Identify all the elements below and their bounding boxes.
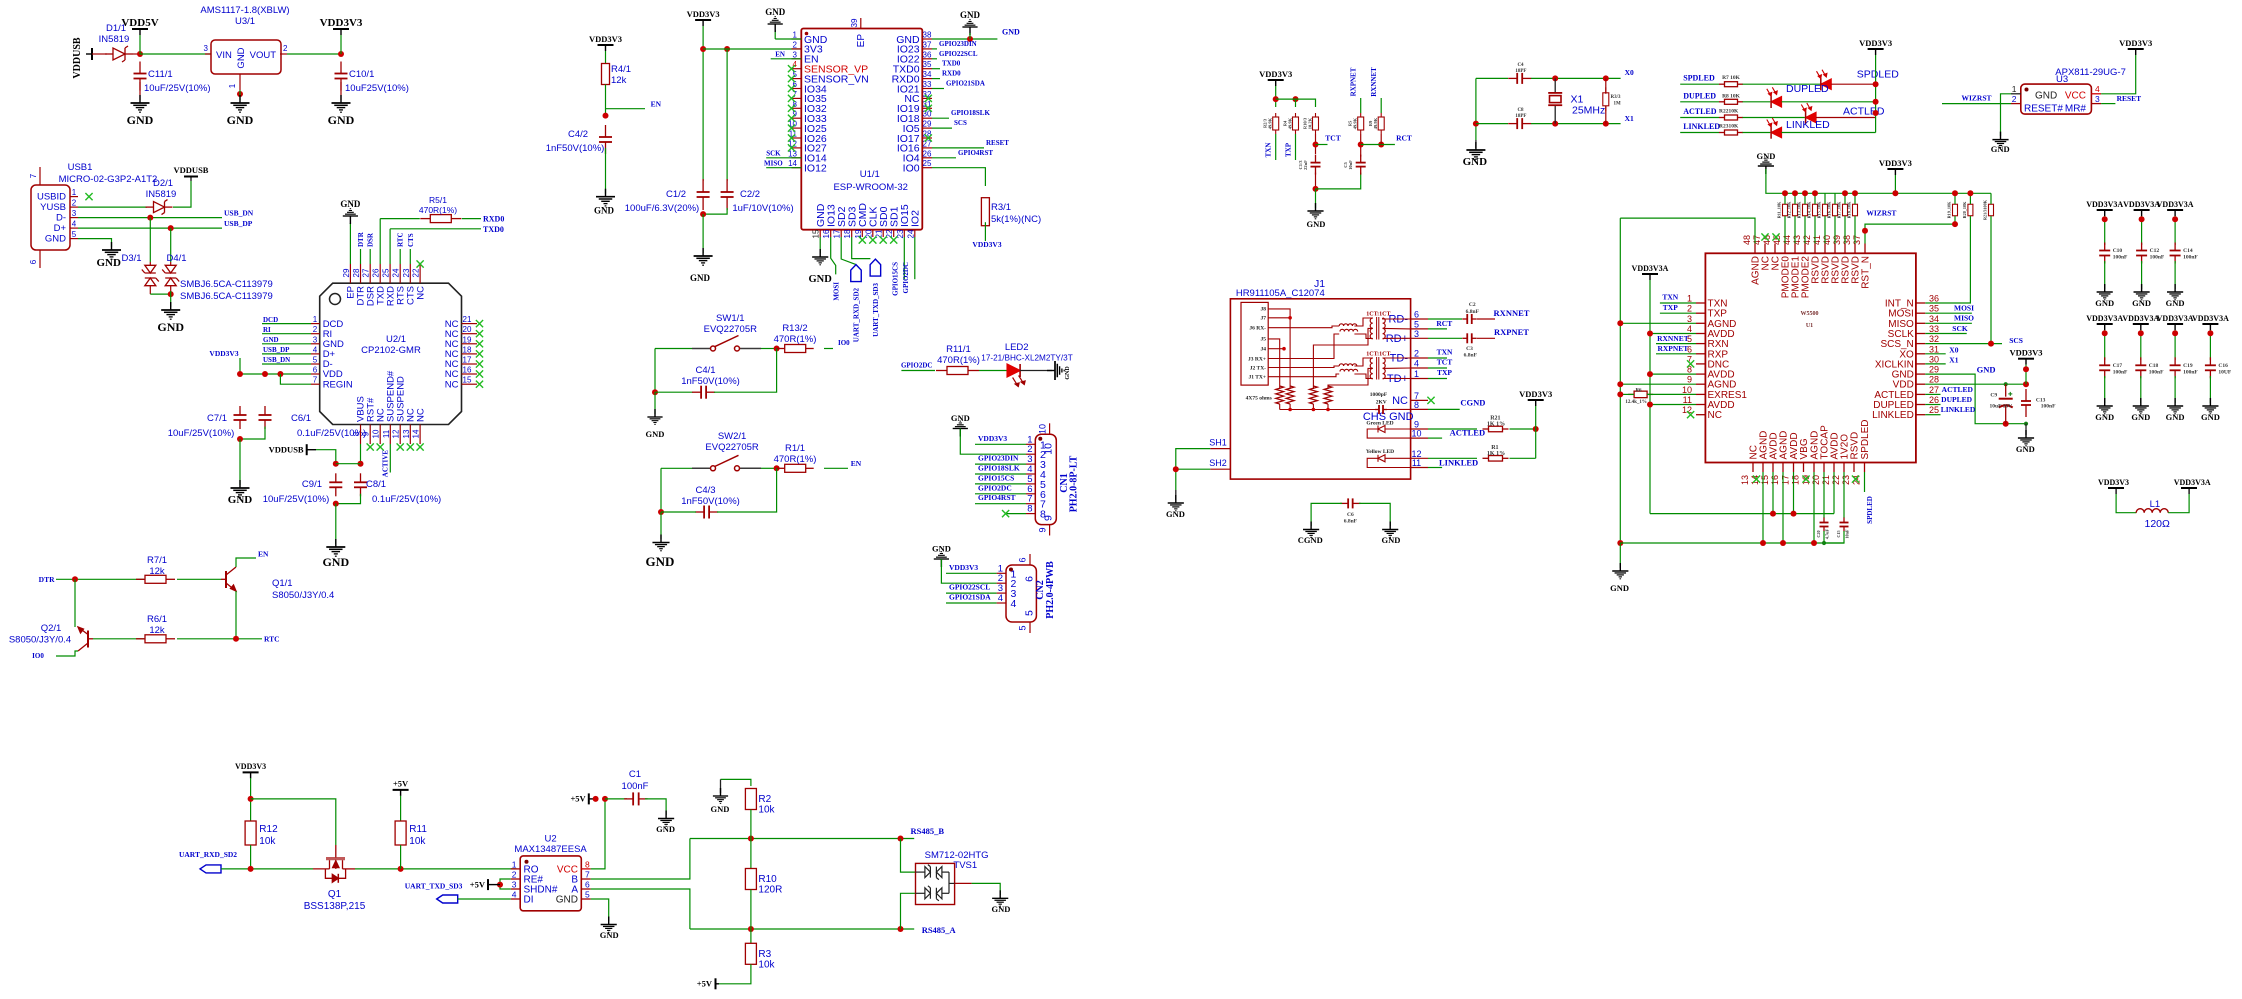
pin 8 AVDD of U1 W5500: [1696, 373, 1705, 375]
svg-text:6: 6: [1018, 557, 1028, 562]
svg-text:15: 15: [463, 376, 472, 385]
svg-text:4: 4: [1414, 359, 1419, 369]
ground below U3: [231, 95, 250, 112]
wire RD+ to C3: [1428, 337, 1462, 339]
svg-text:17: 17: [1781, 475, 1791, 485]
wire yellow LED loop: [1367, 458, 1410, 467]
wire R11 to RO row: [400, 845, 402, 869]
wire R7 to Q1 base: [177, 578, 221, 580]
wire B row to R10: [750, 839, 752, 869]
svg-text:100nF: 100nF: [2149, 370, 2164, 376]
svg-text:X1: X1: [1625, 114, 1634, 123]
svg-text:R15_10K: R15_10K: [1817, 201, 1822, 218]
resistor R6 12.4k_1% (EXRES1): [1628, 391, 1653, 398]
pin 8 VBUS of U2/1 (bottom): [360, 425, 362, 445]
junction at R11 bottom: [398, 866, 404, 872]
pin stub U3 VIN: [205, 53, 211, 55]
junction C1/3 bottom: [1313, 186, 1319, 192]
junction +5V at C1 left: [593, 796, 599, 802]
wire DUPLED stub: [1925, 404, 1940, 406]
svg-text:GND: GND: [960, 10, 981, 20]
junction bus at x=1805: [1802, 190, 1808, 196]
pin 30 XICLKIN of U1 W5500 (right): [1916, 363, 1925, 365]
svg-text:R21/3100K: R21/3100K: [1983, 199, 1988, 220]
resistor R9 49.9K (vertical small): [1378, 113, 1384, 134]
svg-text:LINKLED: LINKLED: [1786, 119, 1830, 131]
wire R11 to LED2: [979, 370, 1008, 372]
svg-text:GND: GND: [2166, 412, 2185, 422]
pin 24 RTS of U2/1 (top): [399, 264, 401, 283]
svg-text:470R(1%): 470R(1%): [774, 334, 817, 345]
junction AVDD pin4: [1647, 331, 1653, 337]
svg-text:12k: 12k: [149, 625, 165, 636]
pin SH2 of J1: [1210, 468, 1230, 470]
resistor R16 10K (pull): [1833, 204, 1838, 216]
wire USB GND pin to ground: [78, 239, 112, 247]
wire RE#/SHDN# tie: [500, 879, 511, 889]
pin 4 SENSOR_VP of U1/1: [792, 68, 802, 70]
svg-text:VDD3V3: VDD3V3: [687, 9, 720, 19]
svg-text:16: 16: [822, 229, 831, 238]
ground below crystal bus: [1466, 142, 1485, 159]
svg-text:5: 5: [72, 230, 77, 239]
svg-text:J2 TX-: J2 TX-: [1250, 365, 1266, 371]
ground below bias network: [1307, 203, 1323, 219]
regulator U3/1 AMS1117-1.8(XBLW): [211, 40, 281, 74]
wire net USB_DP to U2/1: [262, 353, 311, 355]
resistor R1/1 470R(1%): [777, 464, 814, 472]
pin 3 of U3: [2091, 103, 2101, 105]
resistor R3/1 5k(1%)(NC): [981, 198, 989, 226]
pin 14 NC of U2/1 (bottom): [419, 425, 421, 445]
wire A to TVS: [901, 893, 916, 929]
svg-text:27: 27: [362, 268, 371, 277]
wire AVDD bottom bus: [1650, 513, 1834, 515]
resistor R18 10K (pull): [1853, 204, 1858, 216]
power flag VDD3V3A above C17: [2097, 323, 2113, 325]
resistor R21/3 100K: [1989, 204, 1994, 216]
pin 15 GND of U1/1 (bottom): [819, 230, 821, 237]
svg-text:D3/1: D3/1: [121, 253, 141, 264]
wire Q1 emitter down to RTC row: [235, 591, 237, 639]
pin 32 SCS_N of U1 W5500 (right): [1916, 343, 1925, 345]
svg-text:Green LED: Green LED: [1366, 421, 1393, 427]
wire RXP pin6: [1656, 353, 1696, 355]
svg-text:1: 1: [793, 31, 798, 40]
svg-text:R3/1: R3/1: [991, 202, 1011, 213]
power flag VDD3V3 (top): [333, 28, 349, 30]
pin 38 RSVD of U1 W5500 (top): [1854, 244, 1856, 254]
capacitor C13 100nF: [2021, 389, 2031, 417]
junction J7/J8: [1288, 316, 1292, 320]
TVS diode D4/1 SMBJ6.5CA-C113979: [162, 265, 179, 285]
svg-text:GND: GND: [1166, 509, 1185, 519]
pin 23 IO15 of U1/1 (bottom): [903, 230, 905, 237]
svg-text:48: 48: [1742, 235, 1752, 245]
wire C3 to RXPNET: [1477, 337, 1495, 339]
junction bottom AGND x=1763: [1760, 540, 1766, 546]
svg-text:R7/1: R7/1: [147, 555, 167, 566]
wire Q1 collector to EN: [236, 558, 256, 567]
wire VDD3V3A vertical bus: [1649, 280, 1651, 514]
pin 5 RXN of U1 W5500: [1696, 343, 1705, 345]
svg-text:Q2/1: Q2/1: [41, 623, 62, 634]
svg-text:10k: 10k: [259, 836, 276, 847]
capacitor C8 18PF: [1508, 118, 1531, 129]
junction C4/1 left: [652, 389, 658, 395]
resistor R14 10K (pull): [1813, 204, 1818, 216]
junction at C19 top: [2172, 330, 2178, 336]
svg-text:GND: GND: [765, 7, 786, 17]
pin 18 SD3 of U1/1 (bottom): [851, 230, 853, 237]
svg-text:29: 29: [923, 120, 932, 129]
wire AVDD pin11: [1650, 404, 1696, 406]
junction at C12 top: [2139, 216, 2145, 222]
svg-text:SMBJ6.5CA-C113979: SMBJ6.5CA-C113979: [180, 279, 273, 290]
svg-text:VCC: VCC: [2065, 91, 2086, 102]
wire caps to ground: [335, 504, 337, 544]
capacitor C19 100nF: [2170, 357, 2181, 378]
svg-text:16: 16: [463, 366, 472, 375]
wire VDD3V3 down to VDD row: [239, 358, 241, 374]
pin SH1 of J1: [1210, 448, 1230, 450]
svg-text:ESP-WROOM-32: ESP-WROOM-32: [833, 182, 907, 193]
svg-text:10uF 16V: 10uF 16V: [1990, 403, 2013, 409]
pin 3 of J1: [1411, 337, 1428, 339]
power flag VDD3V3 (left of L1): [2108, 487, 2124, 489]
wire R21/3 to SCS: [1990, 216, 1992, 344]
svg-text:GPIO2DC: GPIO2DC: [901, 362, 933, 370]
junction U3 GND: [237, 91, 243, 97]
pin 3 of CN1: [1026, 463, 1035, 465]
wire RXD up: [389, 229, 391, 264]
wire RESET stub: [932, 147, 984, 149]
zigzag resistor 75 ohm x=1328: [1324, 386, 1332, 404]
capacitor C18 100nF: [2135, 357, 2146, 378]
svg-text:GND: GND: [556, 895, 578, 906]
pin 5 of CN1: [1026, 483, 1035, 485]
svg-text:C10/1: C10/1: [349, 69, 374, 80]
junction RXD at R12: [248, 866, 254, 872]
pin 12 of J1: [1411, 457, 1428, 459]
svg-text:VDD3V3A: VDD3V3A: [2123, 200, 2160, 209]
pin 26 TXD of U2/1 (top): [379, 264, 381, 283]
svg-text:4: 4: [1687, 324, 1692, 334]
svg-text:1uF/10V(10%): 1uF/10V(10%): [732, 203, 793, 214]
svg-text:GPIO4RST: GPIO4RST: [958, 149, 993, 157]
no-connect X on pin 22: [417, 260, 424, 267]
svg-text:R12: R12: [259, 824, 278, 835]
wire XO stub: [1925, 353, 1945, 355]
svg-text:RXPNET: RXPNET: [1350, 67, 1358, 96]
wire VDDUSB to C9 top: [316, 450, 336, 464]
pin 31 XO of U1 W5500 (right): [1916, 353, 1925, 355]
pin 10 IO25 of U1/1: [792, 127, 802, 129]
wire GPIO21SDA to CN2 pin4: [946, 602, 997, 604]
wire down to R4: [1295, 99, 1297, 107]
wire ACTLED to resistor: [1680, 117, 1719, 119]
ground below C14: [2167, 284, 2183, 300]
wire AVDD bottom pin x=1793.5: [1793, 472, 1795, 514]
wire R20 to INT_N: [1925, 216, 1970, 303]
svg-text:R8 10K: R8 10K: [1722, 93, 1741, 99]
svg-text:GPIO15CS: GPIO15CS: [892, 262, 900, 296]
svg-text:R6: R6: [1635, 388, 1642, 393]
svg-text:C2: C2: [1469, 302, 1476, 308]
ground flag above W5500 resistor bank: [1758, 158, 1774, 174]
svg-text:TXD0: TXD0: [942, 60, 961, 68]
svg-text:GPIO22SCL: GPIO22SCL: [939, 50, 978, 58]
wire resistor bank bus: [1766, 169, 1991, 193]
svg-text:34: 34: [923, 70, 932, 79]
pin 19 NC of U2/1 (right): [462, 343, 478, 345]
svg-text:SH2: SH2: [1209, 458, 1227, 468]
svg-text:TXN: TXN: [1662, 293, 1678, 302]
wire VDD5V to U3 VIN: [140, 53, 211, 55]
LED LED2 17-21/BHC-XL2M2TY/3T: [1007, 364, 1020, 377]
svg-text:R18_10K: R18_10K: [1847, 201, 1852, 218]
svg-text:LINKLED: LINKLED: [1941, 405, 1976, 414]
ground below C1/2: [694, 248, 713, 265]
svg-text:MOSI: MOSI: [832, 282, 840, 301]
resistor R7 10K: [1719, 82, 1743, 87]
svg-text:RTC: RTC: [264, 635, 280, 644]
IC U2/1 CP2102-GMR: [320, 283, 462, 424]
wire GPIO23DIN stub: [932, 48, 937, 50]
capacitor C1/2 100uF/6.3V(20%): [697, 179, 710, 210]
junction bus at x=1855: [1852, 190, 1858, 196]
pin 28 IO17 of U1/1 (right): [922, 137, 932, 139]
wire LED LINKLED to 3V3 bus: [1782, 132, 1876, 134]
junction C9 bottom: [333, 501, 339, 507]
svg-text:PH2.0-4PWB: PH2.0-4PWB: [1045, 561, 1056, 619]
capacitor C6 6.8nF: [1340, 498, 1361, 508]
wire resistor common bus: [1280, 409, 1377, 411]
svg-text:10uF/25V(10%): 10uF/25V(10%): [144, 83, 211, 94]
no-connect X ESP32 pin 5: [788, 75, 795, 82]
pin 19 AGND of U1 W5500 (bottom): [1813, 463, 1815, 473]
svg-text:12: 12: [392, 429, 401, 438]
ground flag above ESP32 pin38: [962, 20, 977, 35]
svg-text:0.1uF/25V(10%): 0.1uF/25V(10%): [372, 494, 441, 505]
svg-text:9: 9: [1687, 375, 1692, 385]
svg-text:MISO: MISO: [764, 160, 783, 168]
svg-text:6.8nF: 6.8nF: [1344, 519, 1358, 525]
TX secondary coil: [1383, 358, 1386, 379]
pin 3 GND of U2/1: [311, 343, 320, 345]
svg-text:3: 3: [313, 335, 318, 344]
junction VDD5V node: [137, 51, 143, 57]
junction C4/3 left: [658, 509, 664, 515]
junction VDD row at C6: [262, 371, 268, 377]
svg-text:YUSB: YUSB: [40, 202, 66, 213]
svg-text:39: 39: [850, 18, 859, 27]
svg-text:10nF: 10nF: [1845, 529, 1850, 539]
svg-text:10uF/25V(10%): 10uF/25V(10%): [168, 428, 235, 439]
svg-text:RXNNET: RXNNET: [1494, 308, 1530, 318]
svg-text:+5V: +5V: [697, 979, 713, 989]
pin 18 VBG of U1 W5500 (bottom): [1803, 463, 1805, 473]
pin 20 NC of U2/1 (right): [462, 333, 478, 335]
wire crystal ground bus vertical: [1475, 78, 1477, 140]
svg-text:22: 22: [1831, 475, 1841, 485]
svg-text:DUPLED: DUPLED: [1941, 395, 1972, 404]
wire R2 to B row: [750, 810, 752, 839]
svg-text:C6/1: C6/1: [291, 413, 311, 424]
svg-text:ACTIVE: ACTIVE: [382, 450, 390, 478]
wire TD+ TXP stub: [1428, 378, 1447, 380]
svg-text:32: 32: [1929, 334, 1939, 344]
wire GPIO23DIN to CN1 pin3: [975, 463, 1026, 465]
svg-text:NC: NC: [445, 379, 459, 390]
wire SH1 to ground: [1176, 449, 1211, 490]
resistor R3/3 1M (vertical small): [1603, 87, 1609, 111]
connector J1 HR911105A_C12074 (outer box): [1230, 299, 1410, 479]
svg-text:VDD3V3: VDD3V3: [320, 17, 363, 29]
wire B up to RS485_B row: [591, 839, 690, 880]
wire VDD3V3 flag down: [340, 35, 342, 54]
junction bottom AVDD x=1793.5: [1791, 511, 1797, 517]
wire RS485_A row: [690, 928, 914, 930]
svg-text:7: 7: [29, 173, 38, 178]
wire GPIO4RST to CN1 pin7: [975, 503, 1026, 505]
ground below ESP32 pin15: [812, 249, 828, 265]
ground below C10: [2097, 284, 2113, 300]
wire L1 to VDD3V3A: [2168, 494, 2189, 513]
pin 36 INT_N of U1 W5500 (right): [1916, 302, 1925, 304]
net flag VDD3V3 (above C1/2): [695, 19, 711, 21]
pin 7 B of U2 MAX13487 (right): [581, 878, 590, 880]
wire RXD_SD2 row left: [221, 868, 313, 870]
svg-text:17: 17: [463, 356, 472, 365]
svg-text:GND: GND: [2016, 444, 2035, 454]
svg-text:GPIO18SLK: GPIO18SLK: [951, 109, 990, 117]
wire IO15 down: [903, 237, 905, 279]
svg-text:EN: EN: [258, 550, 269, 559]
svg-text:EN: EN: [775, 51, 785, 59]
junction AVDD pin8: [1647, 371, 1653, 377]
svg-text:C3: C3: [1466, 346, 1473, 352]
wire C2/2 bottom to C1/2 bottom: [703, 208, 727, 214]
svg-text:LINKLED: LINKLED: [1872, 410, 1914, 421]
wire R15 10K to pin: [1824, 216, 1826, 244]
svg-text:VDD3V3: VDD3V3: [1519, 389, 1552, 399]
svg-text:100nF: 100nF: [2041, 404, 2056, 410]
svg-text:5: 5: [313, 356, 318, 365]
wire TX sec bottom to TD+: [1383, 377, 1411, 379]
resistor R15 10K (pull): [1823, 204, 1828, 216]
svg-text:VDD5V: VDD5V: [121, 17, 158, 29]
svg-text:1: 1: [2012, 84, 2017, 94]
junction R4/C4-2 node: [603, 113, 609, 119]
svg-text:UART_TXD_SD3: UART_TXD_SD3: [872, 283, 880, 337]
capacitor C1 100nF: [624, 792, 648, 805]
wire MISO stub W5500: [1925, 322, 1972, 324]
wire AVDD pin4: [1650, 333, 1696, 335]
svg-text:C4/1: C4/1: [695, 365, 715, 376]
power flag VDD5V: [132, 28, 148, 30]
svg-text:J8: J8: [1261, 307, 1267, 313]
svg-text:USB1: USB1: [68, 162, 93, 173]
junction bus at x=1795: [1792, 190, 1798, 196]
svg-text:MICRO-02-G3P2-A1T2: MICRO-02-G3P2-A1T2: [59, 174, 158, 185]
junction AGND bus pin3: [1617, 320, 1623, 326]
wire GPIO18SLK to CN1 pin4: [975, 473, 1026, 475]
svg-text:VDD3V3A: VDD3V3A: [2086, 314, 2123, 323]
svg-text:GND: GND: [2131, 412, 2150, 422]
svg-text:GND: GND: [646, 554, 675, 569]
wire caps to ground: [702, 214, 704, 253]
wire resistor to LED LINKLED: [1743, 132, 1771, 134]
svg-text:17: 17: [833, 229, 842, 238]
svg-text:49.9K: 49.9K: [1373, 117, 1378, 129]
junction C7/C6 ground node: [237, 436, 243, 442]
svg-text:USBID: USBID: [37, 192, 66, 203]
pin 7 IO35 of U1/1: [792, 97, 802, 99]
orientation dot CN2: [1009, 568, 1013, 572]
pin 4 of CN1: [1026, 473, 1035, 475]
svg-text:NC: NC: [1708, 410, 1722, 421]
wire J2 TX- to choke: [1268, 366, 1339, 368]
switch SW2/1 EVQ22705R: [692, 467, 761, 469]
svg-text:NC: NC: [1392, 395, 1408, 407]
wire TVS to ground: [972, 883, 1001, 895]
wire D1 cathode to node VDD5V: [133, 53, 140, 55]
svg-text:U1: U1: [1806, 323, 1813, 329]
junction bias node 1: [1273, 96, 1279, 102]
svg-text:DTR: DTR: [39, 575, 55, 584]
svg-text:VDD3V3: VDD3V3: [589, 34, 622, 44]
junction RCT node 1: [1358, 142, 1364, 148]
pin 18 NC of U2/1 (right): [462, 353, 478, 355]
svg-text:AMS1117-1.8(XBLW): AMS1117-1.8(XBLW): [200, 5, 289, 16]
svg-text:U3/1: U3/1: [235, 16, 255, 27]
svg-text:C8: C8: [1517, 108, 1524, 113]
svg-text:42: 42: [1802, 235, 1812, 245]
resistor R13/2 470R(1%): [777, 345, 814, 353]
svg-text:IO2: IO2: [910, 210, 922, 227]
pin 25 IO0 of U1/1 (right): [922, 167, 932, 169]
capacitor C6/1 0.1uF/25V(10%): [259, 406, 272, 429]
svg-text:C17: C17: [2113, 363, 2123, 369]
svg-text:4: 4: [512, 890, 517, 900]
wire AGND bottom pin x=1783: [1782, 472, 1784, 543]
wire resistor to LED DUPLED: [1743, 101, 1771, 103]
svg-text:22nF: 22nF: [1303, 160, 1308, 170]
inverted ground above CN2: [934, 552, 949, 567]
no-connect X ESP32 right row 138: [925, 134, 932, 141]
wire pin21 AVDD down: [1833, 472, 1835, 514]
IC U1 W5500 (box): [1705, 253, 1916, 462]
green junction at C13 bottom: [2024, 422, 2028, 426]
svg-text:10: 10: [1411, 429, 1421, 439]
wire C1 to ground: [645, 799, 666, 815]
wire C10 to GND: [340, 82, 342, 100]
wire USB D+ / USB_DP: [78, 227, 222, 229]
wire to C4/3: [661, 511, 696, 513]
capacitor C1/3 22nF (vertical small): [1311, 155, 1321, 175]
ground below C16: [2202, 398, 2218, 414]
svg-text:8: 8: [1414, 400, 1419, 410]
pin 7 of CN1: [1026, 503, 1035, 505]
wire CN1 pin8 stub: [1006, 513, 1026, 515]
junction RTC node: [233, 636, 239, 642]
svg-text:1K 1%: 1K 1%: [1487, 421, 1505, 427]
capacitor C20 4.7uF (TOCAP): [1823, 472, 1825, 518]
svg-text:EVQ22705R: EVQ22705R: [704, 324, 757, 335]
wire pin8 to CGND label: [1428, 408, 1460, 410]
svg-text:38: 38: [1842, 235, 1852, 245]
